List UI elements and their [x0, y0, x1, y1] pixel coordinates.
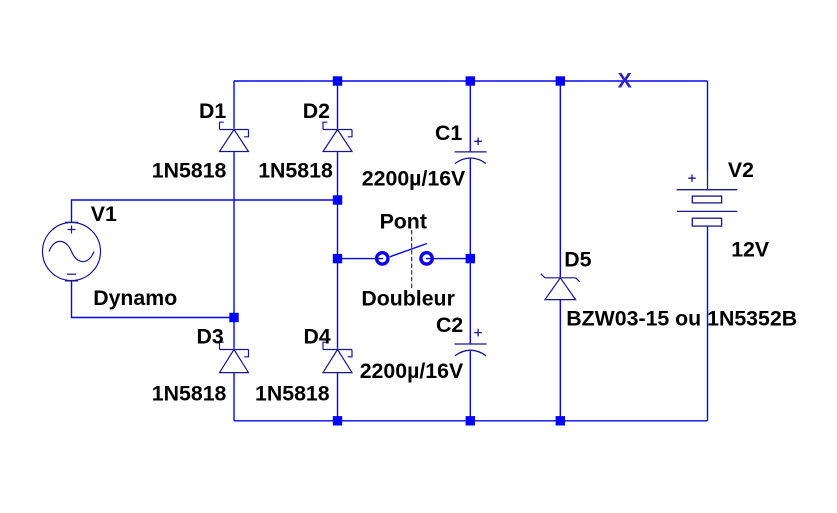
wire left column D1/D3	[233, 81, 235, 421]
svg-text:D3: D3	[197, 324, 224, 348]
svg-text:1N5818: 1N5818	[258, 158, 333, 182]
switch blade	[390, 244, 427, 257]
svg-text:1N5818: 1N5818	[152, 158, 227, 182]
node junction bottom D4	[333, 416, 342, 425]
zener diode D5	[541, 274, 580, 300]
diode D4 (schottky)	[323, 342, 352, 372]
wire capacitor column C1/C2	[469, 81, 471, 421]
wire top rail	[234, 80, 708, 82]
svg-text:D5: D5	[564, 248, 591, 272]
capacitor C2	[455, 329, 487, 356]
wire battery column V2	[707, 81, 709, 421]
node junction V1-D3	[229, 313, 238, 322]
wire switch left	[338, 258, 384, 260]
svg-text:C2: C2	[436, 313, 463, 337]
svg-text:2200µ/16V: 2200µ/16V	[360, 359, 464, 383]
AC source V1	[43, 222, 101, 281]
wire V1 bottom to D1 column	[72, 281, 235, 318]
svg-text:D1: D1	[199, 99, 226, 123]
diode D3 (schottky)	[220, 342, 249, 372]
svg-text:BZW03-15 ou 1N5352B: BZW03-15 ou 1N5352B	[566, 307, 797, 331]
svg-text:12V: 12V	[731, 237, 770, 261]
capacitor C1	[455, 138, 487, 164]
wire zener column D5	[559, 81, 561, 421]
switch dashed divider	[411, 230, 413, 289]
node junction top D2	[333, 76, 342, 85]
node junction switch right	[466, 254, 475, 263]
switch contact right	[421, 253, 432, 264]
svg-text:1N5818: 1N5818	[152, 382, 227, 406]
wire V1 top to D2 column	[72, 200, 338, 222]
svg-text:1N5818: 1N5818	[255, 382, 330, 406]
svg-text:V2: V2	[728, 158, 754, 182]
node junction top D5	[556, 76, 565, 85]
svg-text:Doubleur: Doubleur	[361, 286, 454, 310]
diode D1 (schottky)	[220, 122, 249, 151]
svg-text:D4: D4	[304, 324, 331, 348]
svg-text:C1: C1	[435, 121, 462, 145]
node junction top C1	[466, 76, 475, 85]
wire switch right	[426, 258, 470, 260]
node junction switch left	[333, 254, 342, 263]
battery V2	[677, 171, 738, 226]
diode D2 (schottky)	[323, 122, 352, 151]
svg-text:X: X	[618, 69, 633, 93]
wire bottom rail	[234, 420, 708, 422]
node junction V1-D2	[333, 195, 342, 204]
svg-text:Dynamo: Dynamo	[93, 286, 177, 310]
node junction bottom C2	[466, 416, 475, 425]
svg-text:2200µ/16V: 2200µ/16V	[362, 166, 466, 190]
svg-text:D2: D2	[303, 99, 330, 123]
svg-text:V1: V1	[91, 202, 117, 226]
node junction bottom D5	[556, 416, 565, 425]
wire second column D2/D4	[337, 81, 339, 421]
switch contact left	[377, 253, 388, 264]
svg-text:Pont: Pont	[380, 210, 427, 234]
